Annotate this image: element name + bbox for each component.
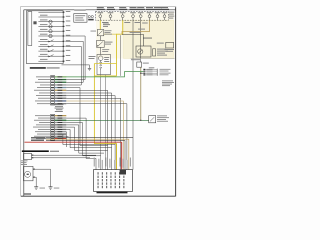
wire row 7 label xyxy=(40,39,48,40)
bundle wire 4 red xyxy=(25,141,122,143)
junction block caption xyxy=(97,192,128,194)
c2 wire 7 run xyxy=(66,130,111,148)
pcm C1 pin 2 xyxy=(51,79,54,80)
c2 wire 2 run xyxy=(66,118,96,170)
pcm C1 wire 5 code label xyxy=(58,87,63,88)
pcm C1 wire 6 colour cell xyxy=(55,90,67,91)
tan wire from F5 xyxy=(122,20,150,34)
ground G103 label xyxy=(40,187,46,190)
relay contact element xyxy=(153,49,156,56)
switch S4 symbol xyxy=(49,55,54,58)
pcm C2 wire 10 code label xyxy=(58,136,63,137)
pcm C2 wire 6 code label xyxy=(58,127,63,128)
c1 wire 6 run xyxy=(66,90,107,145)
wire row 5 label xyxy=(40,29,48,30)
relay box text 2 xyxy=(75,17,83,18)
pcm C1 pin 5 xyxy=(51,87,54,88)
wire label right 2 xyxy=(102,50,108,53)
pressure switch box S1 xyxy=(97,40,105,47)
junction block wire label 10 xyxy=(130,158,131,167)
relay label text 1 xyxy=(157,49,166,50)
inner diagram border left xyxy=(23,10,25,196)
pcm C2 wire 2 code label xyxy=(58,118,63,119)
maxifuse block dashed outline xyxy=(96,11,169,20)
junction dot xyxy=(140,120,141,121)
fuse block right bus xyxy=(62,11,64,64)
wire C2 down long xyxy=(140,67,142,120)
c2 wire 8 run xyxy=(65,132,67,147)
diode symbol xyxy=(98,31,102,35)
lt grn wire from PCM row 1 xyxy=(55,72,144,77)
highlight region (ignition switch area) xyxy=(124,21,175,59)
sensor wire east xyxy=(35,169,51,187)
compressor left label xyxy=(89,56,96,57)
diagram id text xyxy=(24,193,31,194)
pcm C1 wire 6 code label xyxy=(58,90,63,91)
pcm C1 row 9 label xyxy=(38,97,50,100)
pcm C2 pin 8 xyxy=(51,131,54,132)
pcm C2 wire 9 code label xyxy=(58,134,63,135)
compressor relay box xyxy=(136,46,151,57)
pcm C2 row 7 label xyxy=(38,128,50,131)
c1 wire 9 run xyxy=(66,98,120,169)
bundle wire 3 xyxy=(46,141,125,170)
maxifuse F1 label xyxy=(98,11,104,14)
row 4 pin label xyxy=(66,25,71,26)
pcm C2 row 1 label xyxy=(35,114,50,117)
pcm C2 wire 2 colour cell xyxy=(55,117,67,118)
dark vertical under request line xyxy=(120,35,122,76)
junction block red terminal xyxy=(120,170,126,175)
a/c connector pin 1 xyxy=(143,69,145,70)
pcm C1 wire 7 colour cell xyxy=(55,92,67,93)
ign module pins xyxy=(32,155,34,156)
a/c connector row 3 wire stub xyxy=(145,72,157,74)
pcm C1 pin 3 xyxy=(51,82,54,83)
pcm C2 wire 5 code label xyxy=(58,124,63,125)
wire label F3 xyxy=(135,22,141,23)
maxifuse F3 symbol xyxy=(121,15,124,18)
wire label right 1 xyxy=(102,48,109,51)
fuse block caption line 2 xyxy=(47,67,60,68)
a/c component text 4 xyxy=(160,73,169,76)
yellow wire from F2 down xyxy=(117,20,123,76)
junction block pin column 5 xyxy=(115,172,116,174)
ign module text xyxy=(21,159,28,162)
separator label xyxy=(131,59,140,60)
inner diagram border bottom xyxy=(21,195,176,197)
a/c connector pin 2 xyxy=(143,71,145,72)
c1 wire 11 run xyxy=(66,104,127,170)
ground G103 symbol xyxy=(89,66,91,68)
relay box text 1 xyxy=(75,15,85,16)
maxifuse F7 symbol xyxy=(156,15,159,18)
fuse block wire row 8 xyxy=(38,45,63,47)
cutoff text 3 xyxy=(157,118,166,121)
pcm C2 row 10 label xyxy=(34,135,50,138)
fuse block wire row 2 xyxy=(38,16,63,18)
highlight region bottom edge xyxy=(131,58,175,60)
pcm label text xyxy=(54,103,64,106)
pcm C2 wire 4 code label xyxy=(58,122,63,123)
pcm C1 wire 10 code label xyxy=(58,101,63,102)
pcm C2 pin 2 xyxy=(51,118,54,119)
pcm C2 wire 11 code label xyxy=(58,138,63,139)
pcm C2 wire 11 colour cell xyxy=(55,138,67,139)
junction block pin column 2 xyxy=(102,172,103,174)
junction block pin column 6 xyxy=(119,172,120,174)
F1 wire text 2 xyxy=(103,23,110,26)
c2 wire 10 short xyxy=(66,135,68,137)
a/c request label xyxy=(130,32,142,33)
inner diagram border top xyxy=(24,9,176,11)
D1 left label xyxy=(91,30,97,33)
pcm C1 row 7 label xyxy=(39,92,50,95)
row 1 pin terminal xyxy=(63,12,65,13)
junction block box xyxy=(94,170,133,192)
c1 wire 2 run xyxy=(66,36,85,80)
pcm C2 row 4 label xyxy=(39,121,50,124)
pcm C2 pin 11 xyxy=(51,138,54,139)
junction box label xyxy=(165,49,175,50)
relay label text 2 xyxy=(157,51,168,52)
row 3 pin terminal xyxy=(63,21,65,22)
pcm C1 pin 1 xyxy=(51,76,54,77)
fuse block wire row 5 xyxy=(38,30,63,32)
pcm C1 wire 3 colour cell xyxy=(55,82,67,83)
row 11 pin label xyxy=(66,60,71,61)
wire to ground G103 xyxy=(62,64,90,66)
motor label xyxy=(27,174,29,175)
yellow wire D1 east jog xyxy=(104,33,117,35)
clutch circle xyxy=(98,56,103,61)
junction block wire label 3 xyxy=(102,160,103,169)
pcm C2 wire 3 code label xyxy=(58,120,63,121)
row 7 pin label xyxy=(66,40,71,41)
pcm C2 row 8 label xyxy=(35,130,50,133)
C2 box label xyxy=(143,63,149,64)
maxifuse F7 label xyxy=(155,11,161,14)
pcm C2 wire 5 colour cell xyxy=(55,124,67,125)
motor circle xyxy=(25,171,31,177)
pcm C1 pin 10 xyxy=(51,100,54,101)
c2 wire 6 run xyxy=(66,127,107,150)
cutoff text 1 xyxy=(157,114,167,117)
highlight region outer tint xyxy=(96,12,174,58)
wire row 11 label xyxy=(40,59,48,60)
yellow wire jog west xyxy=(94,75,116,77)
wire from F3 down xyxy=(132,20,134,169)
fuse row label above F4 xyxy=(130,6,137,9)
fuse block caption line 1 xyxy=(30,67,46,69)
pcm C1 wire 2 colour cell xyxy=(55,79,67,80)
pcm C2 pin 6 xyxy=(51,127,54,128)
maxifuse F8 symbol xyxy=(163,15,166,18)
maxifuse F4 symbol xyxy=(132,15,135,18)
wire row 1 label xyxy=(40,10,48,11)
a/c connector bracket xyxy=(156,69,158,76)
junction block wire label 8 xyxy=(123,159,124,168)
junction box C100 xyxy=(166,42,174,48)
fuse F1 symbol xyxy=(49,20,52,23)
row 6 pin label xyxy=(66,35,71,36)
ign module box xyxy=(24,153,32,159)
pcm C2 wire 7 code label xyxy=(58,129,63,130)
pcm C1 row 11 label xyxy=(37,102,50,105)
cutoff text 2 xyxy=(157,116,169,119)
pcm C1 wire 8 code label xyxy=(58,95,63,96)
maxifuse F5 label xyxy=(138,11,144,14)
pcm C1 row 4 label xyxy=(40,84,50,87)
wire D1 to S1 xyxy=(99,36,101,41)
row 3 pin label xyxy=(66,21,71,22)
pcm C2 connector strip xyxy=(51,114,55,140)
ground G103 xyxy=(34,186,38,188)
a/c connector row 2 wire stub xyxy=(145,70,157,72)
fuse block wire row 11 xyxy=(38,60,63,62)
pcm C1 wire 1 code label xyxy=(58,76,63,77)
pcm C1 pin 4 xyxy=(51,84,54,85)
relay box text 3 xyxy=(75,20,84,21)
junction block wire label 2 xyxy=(98,159,99,168)
label left of small box xyxy=(157,43,164,44)
pcm C1 row 5 label xyxy=(37,86,50,89)
relay box K1 xyxy=(74,14,87,23)
pcm C1 wire 5 colour cell xyxy=(55,87,67,88)
pcm C1 pin 6 xyxy=(51,90,54,91)
fuse row label above F7 xyxy=(154,6,161,9)
wire row 2 label xyxy=(40,15,48,16)
wire row 8 label xyxy=(40,44,48,45)
pcm C2 pin 5 xyxy=(51,124,54,125)
yellow wire from F1 down xyxy=(99,20,101,29)
yellow wire jog west upper xyxy=(94,63,116,65)
pcm C2 wire 4 colour cell xyxy=(55,122,67,123)
clutch coil xyxy=(100,61,102,63)
relay label text 3 xyxy=(157,53,165,54)
pcm C1 wire 9 code label xyxy=(58,98,63,99)
c1 wire 3 run xyxy=(66,41,83,82)
maxifuse F6 label xyxy=(147,11,153,14)
pcm C1 wire 10 colour cell xyxy=(55,100,67,101)
fuse block wire row 1 xyxy=(38,11,63,13)
a/c component text 3 xyxy=(160,72,171,75)
c2 wire 5 run xyxy=(66,125,104,153)
c2 wire 9 run xyxy=(63,134,115,144)
yellow wire down to junction box xyxy=(93,64,95,144)
relay box header xyxy=(74,10,86,11)
ignition feed text 1 xyxy=(31,137,46,138)
underhood fuse block outline xyxy=(26,11,63,64)
ign module wire 1 xyxy=(34,154,97,156)
S1 right label xyxy=(105,42,113,43)
c1 wire 10 run xyxy=(66,101,123,170)
compressor feed wire down xyxy=(100,70,102,170)
fuse block inner panel PB xyxy=(28,12,32,46)
page background xyxy=(0,0,253,199)
maxifuse F2 symbol xyxy=(109,15,112,18)
wire label F1 xyxy=(102,22,108,23)
maxifuse F5 symbol xyxy=(139,15,142,18)
red wire drop to junction block xyxy=(121,142,123,169)
wire row 3 label xyxy=(40,19,48,20)
fuse block wire row 3 xyxy=(38,21,63,23)
pcm C2 row 6 label xyxy=(33,126,50,129)
yellow harness lower jog xyxy=(94,142,116,144)
fuse block wire row 10 xyxy=(38,55,63,57)
row 8 pin terminal xyxy=(63,46,65,47)
compressor inner label xyxy=(104,57,109,58)
junction block wire label 6 xyxy=(114,160,115,169)
pcm C2 row 3 label xyxy=(34,119,50,122)
switch symbol xyxy=(98,42,103,47)
wire row 9 label xyxy=(40,49,48,50)
row 2 pin terminal xyxy=(63,16,65,17)
fuse F4 symbol xyxy=(49,34,52,37)
a/c connector row 4 label xyxy=(147,73,153,76)
fuse row label above F5 xyxy=(137,6,144,9)
cutoff switch symbol xyxy=(150,117,154,121)
pcm C1 wire 8 colour cell xyxy=(55,95,67,96)
wire S1 to compressor xyxy=(99,47,101,54)
bundle wire 1 xyxy=(46,137,133,139)
c1 wire 5 run xyxy=(66,88,107,170)
pcm C1 wire 7 code label xyxy=(58,93,63,94)
pcm C1 row 2 label xyxy=(38,78,50,81)
fuse row label above F6 xyxy=(146,6,153,9)
pcm C1 pin 8 xyxy=(51,95,54,96)
pcm C1 row 6 label xyxy=(34,89,50,92)
row 2 pin label xyxy=(66,15,71,18)
pcm C1 row 8 label xyxy=(36,94,50,97)
inline connector C2 box xyxy=(137,62,142,67)
junction block wire label 7 xyxy=(119,158,120,167)
pcm C2 row 5 label xyxy=(36,123,50,126)
compressor second pin wire xyxy=(104,75,106,170)
row 5 pin label xyxy=(66,30,71,31)
dk grn wire PCM to cutoff switch xyxy=(55,119,149,121)
pcm C1 pin 7 xyxy=(51,92,54,93)
pcm C2 wire 7 colour cell xyxy=(55,129,67,130)
a/c compressor clutch box xyxy=(97,55,111,75)
pcm C1 wire 4 code label xyxy=(58,85,63,86)
fuse F3 symbol xyxy=(49,30,52,33)
switch S3 symbol xyxy=(49,50,54,53)
block row 8 extension xyxy=(65,45,81,47)
fuse block wire row 4 xyxy=(38,25,63,27)
junction block wire label 4 xyxy=(105,158,106,167)
pcm C2 row 11 label xyxy=(36,137,50,140)
maxifuse F3 label xyxy=(120,11,126,14)
a/c connector row 3 label xyxy=(147,72,153,75)
bundle wire 2 tan xyxy=(46,139,129,169)
ignition feed text 2 xyxy=(31,140,44,141)
wire tap to AC connector xyxy=(141,72,144,74)
fuse block id text block xyxy=(169,12,175,13)
relay coil circle xyxy=(138,49,143,54)
inner diagram border right xyxy=(175,7,177,196)
a/c connector row 2 label xyxy=(147,70,153,73)
relay header label xyxy=(143,37,152,40)
cutoff switch box xyxy=(149,116,156,123)
c1 wire 7 run xyxy=(66,93,111,170)
junction block pin column 7 xyxy=(123,172,124,174)
pcm C2 row 9 label xyxy=(37,133,50,136)
row 9 pin terminal xyxy=(63,51,65,52)
pcm C2 wire 10 colour cell xyxy=(55,136,67,137)
block row 6 extension xyxy=(65,35,85,37)
pcm C2 pin 1 xyxy=(51,115,54,116)
row 1 pin label xyxy=(66,11,71,12)
D1 right label xyxy=(105,29,112,32)
sensor box with motor xyxy=(24,166,34,180)
F1 wire text 3 xyxy=(103,25,108,28)
fuse block wire row 9 xyxy=(38,50,63,52)
pcm C2 wire 1 colour cell xyxy=(55,115,67,116)
sensor ground wire xyxy=(35,177,37,187)
junction block pin column 3 xyxy=(106,172,107,174)
row 10 pin terminal xyxy=(63,56,65,57)
pcm C1 wire 2 code label xyxy=(58,79,63,80)
row 8 pin label xyxy=(66,45,71,46)
pcm C2 pin 10 xyxy=(51,136,54,137)
row 6 pin terminal xyxy=(63,35,65,36)
junction block wire label 5 xyxy=(109,159,110,168)
ground G104 xyxy=(49,186,53,188)
c1 wire 8 run xyxy=(66,96,115,170)
wire label F2 xyxy=(124,22,130,23)
wire from F4 down xyxy=(140,20,142,62)
cutoff text 4 xyxy=(157,120,168,123)
sensor pins xyxy=(33,169,35,170)
a/c switch text block xyxy=(162,79,173,82)
fuse row label above F1 xyxy=(97,6,104,9)
row 10 pin label xyxy=(66,55,71,56)
connector symbol right of relay box xyxy=(88,16,90,18)
pcm C1 pin 11 xyxy=(51,103,54,104)
relay label text 4 xyxy=(157,55,167,56)
block row 7 extension xyxy=(65,40,83,42)
pcm C1 wire 11 code label xyxy=(58,103,63,104)
fuse row label above F2 xyxy=(107,6,114,9)
wire row 10 label xyxy=(40,54,48,55)
a/c connector row 4 wire stub xyxy=(145,74,157,76)
yellow wire drop to junction block xyxy=(116,143,118,169)
pcm C2 wire 1 code label xyxy=(58,115,63,116)
section caption bold xyxy=(22,150,49,152)
wire row 6 label xyxy=(40,34,48,35)
switch S2 symbol xyxy=(49,45,54,48)
F1 wire text 1 xyxy=(103,22,109,25)
row 9 pin label xyxy=(66,50,71,51)
pcm C1 wire 9 colour cell xyxy=(55,98,67,99)
junction block pin column 4 xyxy=(110,172,111,174)
junction block wire label 1 xyxy=(94,158,95,167)
pcm C1 wire 4 colour cell xyxy=(55,84,67,85)
junction block wire label 9 xyxy=(127,160,128,169)
pcm C1 row 3 label xyxy=(35,81,50,84)
fuse block wire row 6 xyxy=(38,35,63,37)
label PB xyxy=(33,21,36,24)
ign module wire 2 xyxy=(34,157,91,159)
pcm C2 wire 8 code label xyxy=(58,131,63,132)
pcm C1 pin 9 xyxy=(51,98,54,99)
section caption cont xyxy=(50,151,59,152)
row 5 pin terminal xyxy=(63,31,65,32)
maxifuse F6 symbol xyxy=(148,15,151,18)
a/c connector header label xyxy=(149,67,155,68)
row 7 pin terminal xyxy=(63,41,65,42)
